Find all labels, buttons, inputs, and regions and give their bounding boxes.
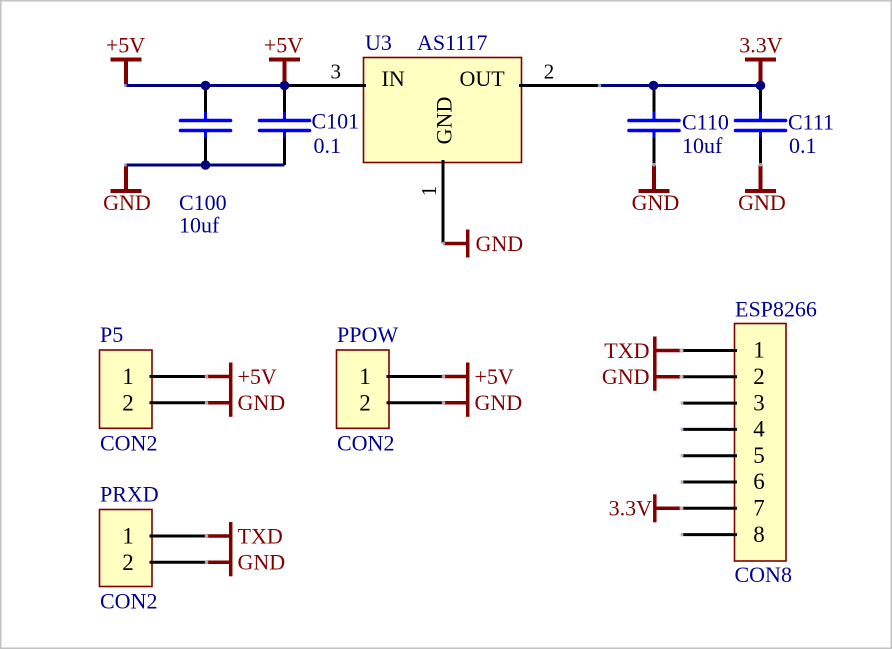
pin end marker (ESP pin 1) <box>680 349 684 353</box>
PRXD pin 1 wire <box>150 535 208 538</box>
capacitor C111 <box>736 87 786 166</box>
power port TXD wire (ESP pin1) <box>655 349 684 353</box>
ground GND (left) <box>103 165 151 215</box>
power flag +5V (left) <box>106 33 145 86</box>
power port GND wire <box>443 401 468 405</box>
ESP8266 pin 6 wire <box>681 481 737 484</box>
svg-text:U3: U3 <box>365 30 392 55</box>
svg-text:CON2: CON2 <box>100 589 157 614</box>
svg-text:3.3V: 3.3V <box>609 496 653 521</box>
power port bar GND <box>466 389 470 417</box>
P5 pin 1 wire <box>150 375 208 378</box>
ESP8266 pin 5 wire <box>681 454 737 457</box>
pin end marker (ESP pin 3) <box>680 401 684 405</box>
svg-text:1: 1 <box>122 364 134 389</box>
junction node 3.3V/C111 <box>756 81 766 91</box>
capacitor C101 <box>260 87 310 166</box>
op-amp U3 regulator body <box>364 58 522 163</box>
power port GND wire <box>206 401 231 405</box>
pin end marker (PRXD pin1) <box>205 534 209 538</box>
svg-text:GND: GND <box>602 364 650 389</box>
power port bar +5V <box>229 363 233 391</box>
power port GND wire (ESP pin2) <box>655 375 684 379</box>
power port bar TXD <box>229 522 233 550</box>
svg-text:GND: GND <box>738 190 786 215</box>
svg-text:+5V: +5V <box>264 33 303 58</box>
svg-text:2: 2 <box>753 364 765 389</box>
svg-text:6: 6 <box>753 469 765 494</box>
power port bar GND <box>229 548 233 576</box>
svg-text:PRXD: PRXD <box>100 482 159 507</box>
pin end marker (ESP pin 4) <box>680 427 684 431</box>
power flag 3.3V <box>739 33 783 86</box>
svg-text:3.3V: 3.3V <box>739 33 783 58</box>
svg-text:CON2: CON2 <box>100 431 157 456</box>
svg-text:GND: GND <box>632 190 680 215</box>
svg-text:GND: GND <box>475 390 523 415</box>
ground GND (under C111) <box>738 165 786 215</box>
power flag +5V (at C101) <box>264 33 303 86</box>
pin end marker (ESP pin 5) <box>680 454 684 458</box>
pin end marker (ESP pin 7) <box>680 506 684 510</box>
svg-text:GND: GND <box>476 231 524 256</box>
pin end marker (P5 pin1) <box>205 375 209 379</box>
svg-text:GND: GND <box>432 97 457 145</box>
svg-text:1: 1 <box>753 338 765 363</box>
svg-text:7: 7 <box>753 496 765 521</box>
svg-text:PPOW: PPOW <box>337 322 398 347</box>
pin end marker (ESP pin 8) <box>680 533 684 537</box>
ESP8266 pin 4 wire <box>681 428 737 431</box>
connector ESP8266 body <box>735 324 787 562</box>
power port bar 3.3V <box>653 494 657 522</box>
svg-text:2: 2 <box>122 550 134 575</box>
svg-text:1: 1 <box>359 364 371 389</box>
svg-text:C110: C110 <box>682 110 729 135</box>
junction node +5V/C100 <box>201 81 211 91</box>
pin end marker (PRXD pin2) <box>205 561 209 565</box>
svg-text:10uf: 10uf <box>682 133 723 158</box>
power port 3.3V wire (ESP pin7) <box>655 507 684 511</box>
PPOW pin 2 wire <box>387 401 445 404</box>
power port +5V wire <box>206 375 231 379</box>
ESP8266 pin 8 wire <box>681 533 737 536</box>
ESP8266 pin 1 wire <box>681 349 737 352</box>
connector P5 body <box>100 350 153 428</box>
junction node 3.3V/C110 <box>649 81 659 91</box>
svg-text:1: 1 <box>122 524 134 549</box>
ground GND (under C110) <box>632 165 680 215</box>
power port bar +5V <box>466 363 470 391</box>
PPOW pin 1 wire <box>387 375 445 378</box>
wire 3.3V net (top right) <box>599 84 761 87</box>
svg-text:+5V: +5V <box>475 364 514 389</box>
svg-text:1: 1 <box>417 186 441 197</box>
power port TXD wire <box>206 534 231 538</box>
P5 pin 2 wire <box>150 401 208 404</box>
wire GND net (bottom left) <box>125 164 285 167</box>
ESP8266 pin 7 wire <box>681 507 737 510</box>
U3 pin 1 wire <box>442 160 445 244</box>
svg-text:0.1: 0.1 <box>789 133 817 158</box>
svg-text:+5V: +5V <box>106 33 145 58</box>
svg-text:5: 5 <box>753 443 765 468</box>
svg-text:C111: C111 <box>788 110 834 135</box>
label C100 value 10uf <box>179 190 227 237</box>
power port bar TXD <box>653 337 657 365</box>
svg-text:2: 2 <box>122 390 134 415</box>
pin end marker (P5 pin2) <box>205 401 209 405</box>
svg-text:GND: GND <box>103 190 151 215</box>
junction node GND/C100 <box>201 160 211 170</box>
svg-text:CON2: CON2 <box>337 431 394 456</box>
svg-text:3: 3 <box>753 390 765 415</box>
svg-text:+5V: +5V <box>238 364 277 389</box>
svg-text:TXD: TXD <box>238 523 283 548</box>
svg-text:8: 8 <box>753 522 765 547</box>
label C101 value 0.1 <box>312 108 360 158</box>
U3 pin 3 wire <box>285 84 367 87</box>
ground GND (U3 pin 1, sideways) <box>443 230 523 258</box>
svg-text:GND: GND <box>238 390 286 415</box>
junction node +5V/C101/pin3 <box>280 81 290 91</box>
pin end marker (ESP pin 2) <box>680 375 684 379</box>
pin end marker (ESP pin 6) <box>680 480 684 484</box>
PRXD pin 2 wire <box>150 561 208 564</box>
ESP8266 pin 2 wire <box>681 375 737 378</box>
svg-text:IN: IN <box>382 66 405 91</box>
U3 pin 2 wire <box>519 84 600 87</box>
svg-text:2: 2 <box>544 60 555 84</box>
pin end marker (PPOW pin1) <box>442 375 446 379</box>
svg-text:0.1: 0.1 <box>314 133 342 158</box>
capacitor C100 <box>181 87 231 166</box>
svg-text:2: 2 <box>359 390 371 415</box>
connector PRXD body <box>100 510 153 587</box>
capacitor C110 <box>629 87 679 166</box>
power port +5V wire <box>443 375 468 379</box>
pin end marker (C110 gnd) <box>652 163 656 167</box>
svg-text:AS1117: AS1117 <box>417 30 488 55</box>
label C110 value 10uf <box>682 110 729 159</box>
svg-text:P5: P5 <box>100 322 123 347</box>
pin end marker (wire start top) <box>124 84 127 87</box>
svg-text:CON8: CON8 <box>735 562 792 587</box>
pin end marker (PPOW pin2) <box>442 401 446 405</box>
ESP8266 pin 3 wire <box>681 402 737 405</box>
svg-text:4: 4 <box>753 417 765 442</box>
power port bar GND <box>229 389 233 417</box>
svg-text:GND: GND <box>238 550 286 575</box>
power port GND wire <box>206 561 231 565</box>
svg-text:ESP8266: ESP8266 <box>735 297 817 322</box>
svg-text:OUT: OUT <box>460 66 506 91</box>
svg-text:C100: C100 <box>179 190 227 215</box>
pin end marker (pin2/wire) <box>598 84 602 88</box>
wire +5V net (top left) <box>125 84 285 87</box>
pin end marker (C111 gnd) <box>759 163 763 167</box>
svg-text:10uf: 10uf <box>179 212 220 237</box>
pin end marker (pin1/gnd) <box>442 242 446 246</box>
pin end marker (wire start bottom) <box>124 163 127 166</box>
svg-text:TXD: TXD <box>604 338 649 363</box>
power port bar GND <box>653 363 657 391</box>
label C111 value 0.1 <box>788 110 834 159</box>
connector PPOW body <box>337 350 390 428</box>
svg-text:C101: C101 <box>312 108 360 133</box>
svg-text:3: 3 <box>331 60 342 84</box>
